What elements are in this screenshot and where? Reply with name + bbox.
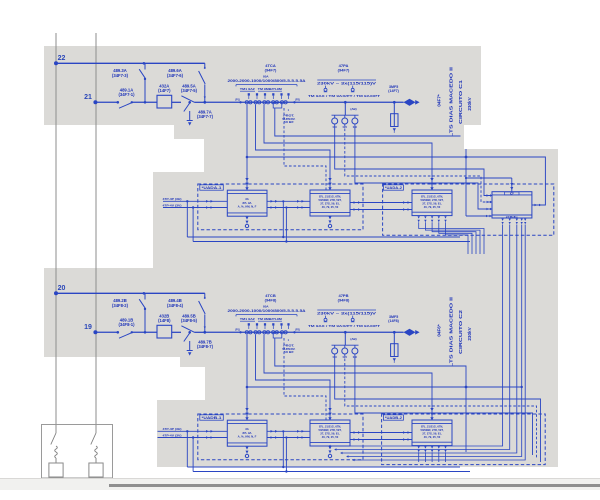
PT winding symbols (ratio) <box>325 316 327 319</box>
main line 21 right segment <box>205 101 404 103</box>
arrester ground arrow <box>393 128 396 131</box>
CT secondary terminal ticks <box>248 93 250 95</box>
svg-text:(P1): (P1) <box>235 329 240 332</box>
svg-text:LTS DIAS MACEDO II: LTS DIAS MACEDO II <box>449 297 454 367</box>
CT windings on main line <box>245 331 248 334</box>
svg-text:(P2): (P2) <box>295 329 300 332</box>
svg-text:CIRCUITO C2: CIRCUITO C2 <box>458 309 463 354</box>
feeder line F2 (gray, from upper bay) <box>95 33 97 461</box>
svg-text:TM 9MB/PI-9M: TM 9MB/PI-9M <box>258 87 283 91</box>
svg-text:(14F8): (14F8) <box>388 319 399 323</box>
relay U2 (distance protection) <box>310 420 350 446</box>
line exit arrow 04F7* <box>404 99 416 106</box>
relay U1 bottom indicator <box>246 447 249 450</box>
panel bus wire A <box>187 466 460 468</box>
disconnector 489.5B (34F8-5) <box>172 331 181 333</box>
earth switch 489.7B (34F8-7) <box>188 331 191 334</box>
PT bracket and windings <box>332 114 359 116</box>
svg-text:(34F7-1): (34F7-1) <box>118 92 135 97</box>
svg-text:A, %, HM, N, F: A, %, HM, N, F <box>238 434 257 438</box>
wire relay U1 to relay U2 (upper) <box>267 200 310 202</box>
svg-text:27, 27G, 59, 81,: 27, 27G, 59, 81, <box>320 201 340 205</box>
corner of bus 20 down to main line <box>204 293 206 299</box>
disconnector 489.1B (34F8-1) <box>117 331 120 334</box>
protection panel group *UADB-1 (dashed) <box>198 414 363 460</box>
relay U2 (distance protection) <box>310 190 350 216</box>
arrester ground arrow <box>393 358 396 361</box>
svg-text:19: 19 <box>84 324 92 331</box>
wire relay U2 to relay U3 (lower) <box>350 439 412 441</box>
PT tap junction <box>344 101 347 104</box>
relay U2 bottom indicator <box>329 216 332 219</box>
svg-text:(34F7-3): (34F7-3) <box>112 73 129 78</box>
svg-text:04F6*: 04F6* <box>437 324 442 336</box>
disconnector 489.1A (34F7-1) <box>117 101 120 104</box>
relay U1 (line differential) <box>227 190 267 216</box>
disconnector 489.4B (34F8-4) <box>204 296 206 298</box>
ground symbol under earth switch <box>188 352 191 355</box>
svg-text:LTS DIAS MACEDO II: LTS DIAS MACEDO II <box>449 67 454 137</box>
CT secondary wire to relay panel 1 <box>246 335 248 421</box>
circuit breaker 432B (14F8) <box>157 325 172 338</box>
background shading (drawing sheet highlight regions) <box>44 46 481 125</box>
svg-text:04F7*: 04F7* <box>437 94 442 106</box>
svg-text:47P-4V (3V): 47P-4V (3V) <box>163 204 182 208</box>
risers from panel wires down to bus wires <box>282 201 284 237</box>
relay U4 bottom output wires (to circuit C2 panel) <box>501 219 503 221</box>
feeder switch S2 (gray) <box>91 433 96 445</box>
protection panel group *UADB-2 (dashed) <box>382 414 546 465</box>
main line 21 left segment <box>95 101 118 103</box>
svg-text:(94F8): (94F8) <box>338 297 350 302</box>
relay U4 top entry arrows <box>510 183 513 186</box>
CT secondary wire 4 (long top run, corners down at x466) <box>275 338 466 387</box>
svg-text:(34F7-6): (34F7-6) <box>167 73 184 78</box>
CT secondary wire to relay panel 3 <box>264 105 432 191</box>
CT secondary terminal ticks <box>248 323 250 325</box>
svg-text:47P-4P (3H): 47P-4P (3H) <box>163 427 182 431</box>
wire bus from CT run down right side to relay U4 <box>247 157 545 205</box>
wire relay U2 to relay U3 (upper) <box>350 432 412 434</box>
relay U4 (bay unit, circuit C1 only) <box>492 192 532 218</box>
svg-text:87L, 21/21G, 67N,: 87L, 21/21G, 67N, <box>421 425 443 429</box>
svg-text:230kV: 230kV <box>467 326 472 340</box>
relay U2 bottom indicator <box>329 446 332 449</box>
relay U2 top entry arrows <box>328 178 331 181</box>
circuit breaker 432A (14F7) <box>157 95 172 108</box>
input riser wires <box>186 430 188 432</box>
svg-text:50/62BF, 27R, 59T,: 50/62BF, 27R, 59T, <box>318 198 341 202</box>
svg-text:(94F7): (94F7) <box>338 67 350 72</box>
svg-text:46, 79, 25, 50: 46, 79, 25, 50 <box>424 205 441 209</box>
svg-text:87L, 21/21G, 67N,: 87L, 21/21G, 67N, <box>319 425 341 429</box>
earth switch 489.7A (34F7-7) <box>188 101 191 104</box>
wire drop at x145 to disconnector 489.2B <box>144 293 146 299</box>
feeder terminal box T1 <box>49 463 63 477</box>
relay U1 top entry arrows <box>245 408 248 411</box>
svg-text:TM 9AX / TM 9AX/PT / TM 9AX/PT: TM 9AX / TM 9AX/PT / TM 9AX/PT <box>308 94 380 98</box>
CT secondary wire to relay panel 3 <box>264 335 432 421</box>
relay U1 (line differential) <box>227 420 267 446</box>
svg-text:47P-4P (3H): 47P-4P (3H) <box>163 197 182 201</box>
svg-text:(34F8-7): (34F8-7) <box>197 344 214 349</box>
wire relay U2 to relay U3 (lower) <box>350 209 412 211</box>
svg-text:*UADB-1: *UADB-1 <box>202 416 222 420</box>
wire relay U1 to relay U2 (lower) <box>267 207 310 209</box>
PT bracket and windings <box>332 344 359 346</box>
svg-text:TM1 9AZ: TM1 9AZ <box>240 317 255 321</box>
svg-text:(34F7-5): (34F7-5) <box>181 88 198 93</box>
svg-text:TM1 9AZ: TM1 9AZ <box>240 87 255 91</box>
main line 19 right segment <box>205 331 404 333</box>
CT windings on main line <box>245 101 248 104</box>
svg-text:(14F7): (14F7) <box>388 89 399 93</box>
svg-text:87L, 21/21G, 67N,: 87L, 21/21G, 67N, <box>421 195 443 199</box>
svg-text:*UADB-2: *UADB-2 <box>385 416 402 420</box>
feeder terminal box T2 <box>89 463 103 477</box>
svg-text:(AB): (AB) <box>350 107 356 111</box>
svg-text:47P-4V (3V): 47P-4V (3V) <box>163 434 182 438</box>
PT secondary wires to relay U4 inputs <box>335 124 492 196</box>
line exit arrow 04F6* <box>404 329 416 336</box>
svg-text:(34F8-4): (34F8-4) <box>167 303 184 308</box>
ground symbol under earth switch <box>188 122 191 125</box>
svg-text:46, 79, 25, 50: 46, 79, 25, 50 <box>322 205 339 209</box>
svg-text:230kV: 230kV <box>467 96 472 110</box>
CT secondary wire to relay panel 2 <box>256 105 331 191</box>
svg-text:27, 27G, 59, 81,: 27, 27G, 59, 81, <box>422 201 442 205</box>
svg-text:*UADA-2: *UADA-2 <box>385 186 402 190</box>
svg-text:20: 20 <box>58 285 66 292</box>
svg-text:(34F7-7): (34F7-7) <box>197 114 214 119</box>
svg-text:(34F8-2): (34F8-2) <box>112 303 129 308</box>
horizontal scrollbar track <box>0 478 600 490</box>
svg-text:46, 79, 25, 50: 46, 79, 25, 50 <box>424 435 441 439</box>
protection panel group *UADA-1 (dashed) <box>198 184 363 230</box>
svg-text:50/62BF, 27R, 59T,: 50/62BF, 27R, 59T, <box>420 198 443 202</box>
svg-text:(14F8): (14F8) <box>158 318 171 323</box>
svg-text:ICP: ICP <box>510 193 514 195</box>
wire relay U1 to relay U2 (upper) <box>267 430 310 432</box>
wire relay U1 to relay U2 (lower) <box>267 437 310 439</box>
relay U3 top entry arrows <box>430 178 433 181</box>
PT winding symbols (ratio) <box>325 86 327 89</box>
svg-text:50 BF: 50 BF <box>284 350 294 354</box>
panel bus wire B <box>193 241 470 243</box>
disconnector 489.6A (34F7-6) <box>204 66 206 68</box>
svg-text:50/62BF, 27R, 59T,: 50/62BF, 27R, 59T, <box>318 428 341 432</box>
svg-text:21: 21 <box>84 94 92 101</box>
svg-text:*UADA-1: *UADA-1 <box>202 186 222 190</box>
PT tap junction <box>344 331 347 334</box>
relay U1 top entry arrows <box>245 178 248 181</box>
CT metering wire (dashed) <box>284 338 326 420</box>
relay U3 top entry arrows <box>430 408 433 411</box>
svg-text:TM 9MB/PI-9M: TM 9MB/PI-9M <box>258 317 283 321</box>
svg-text:27, 27G, 59, 81,: 27, 27G, 59, 81, <box>320 431 340 435</box>
svg-text:CIRCUITO C1: CIRCUITO C1 <box>458 79 463 124</box>
svg-text:22: 22 <box>58 55 66 62</box>
svg-text:(P2): (P2) <box>295 99 300 102</box>
CT secondary wire 4 (long top run, corners down at x466) <box>275 108 461 136</box>
svg-text:50/62BF, 27R, 59T,: 50/62BF, 27R, 59T, <box>420 428 443 432</box>
disconnector 489.3A (34F7-3) <box>139 69 145 79</box>
relay U3 bottom output arrows <box>418 216 420 218</box>
metering CT box <box>273 333 282 338</box>
metering CT box <box>273 103 282 108</box>
PT secondary wires to relay U4 inputs <box>335 354 541 462</box>
wire relay U2 to relay U3 (upper) <box>350 202 412 204</box>
panel bus wire B <box>193 471 470 473</box>
disconnector 489.5A (34F7-5) <box>172 101 181 103</box>
svg-text:46, 79, 25, 50: 46, 79, 25, 50 <box>322 435 339 439</box>
svg-text:(94F7): (94F7) <box>265 67 277 72</box>
CT ratio bracket <box>236 84 297 86</box>
risers from panel wires down to bus wires <box>282 431 284 467</box>
svg-text:2000-2000-1000/1000/800/5-5-5-: 2000-2000-1000/1000/800/5-5-5-5-5A <box>228 309 307 313</box>
relay U4 top feed branch <box>466 177 512 179</box>
CT secondary wire to relay panel 1 <box>246 105 248 191</box>
svg-text:230kV ~ 3x(115/115)V: 230kV ~ 3x(115/115)V <box>317 311 377 315</box>
relay U2 top entry arrows <box>328 408 331 411</box>
CT ratio bracket <box>236 314 297 316</box>
relay U1 bottom indicator <box>246 217 249 220</box>
feeder switch S1 (gray) <box>51 433 56 445</box>
svg-text:27, 27G, 59, 81,: 27, 27G, 59, 81, <box>422 431 442 435</box>
horizontal scrollbar thumb <box>109 484 600 487</box>
feeder termination cubicle (gray outline box) <box>42 425 113 479</box>
bus 22 (upper bus) <box>56 62 205 64</box>
svg-text:87L, 21/21G, 67N,: 87L, 21/21G, 67N, <box>319 195 341 199</box>
relay U3 (backup protection) <box>412 190 452 216</box>
main line 19 left segment <box>95 331 118 333</box>
CT secondary wire to relay panel 2 <box>256 335 331 421</box>
svg-text:A, %, HM, N, F: A, %, HM, N, F <box>238 204 257 208</box>
svg-text:TM 9AX / TM 9AX/PT / TM 9AX/PT: TM 9AX / TM 9AX/PT / TM 9AX/PT <box>308 324 380 328</box>
corner of bus 22 down to main line <box>204 63 206 69</box>
svg-text:2000-2000-1000/1000/800/5-5-5-: 2000-2000-1000/1000/800/5-5-5-5-5A <box>228 79 307 83</box>
svg-text:2TB/4C: 2TB/4C <box>506 216 519 219</box>
feeder line F1 (gray, from upper bay) <box>55 33 57 461</box>
CT metering wire (dashed) <box>284 108 326 190</box>
bus 20 (upper bus) <box>56 292 205 294</box>
protection panel group *UADA-2 (dashed) <box>383 184 554 235</box>
disconnector 489.2B (34F8-2) <box>139 299 145 309</box>
svg-text:(AB): (AB) <box>350 337 356 341</box>
relay U3 bottom output arrows <box>418 446 420 448</box>
input riser wires <box>186 200 188 202</box>
svg-text:(P1): (P1) <box>235 99 240 102</box>
wire bus from CT run down right side to relay U4 <box>247 386 522 388</box>
svg-text:(34F8-5): (34F8-5) <box>181 318 198 323</box>
svg-text:(94F8): (94F8) <box>265 297 277 302</box>
wire drop at x145 to disconnector 489.3A <box>144 63 146 69</box>
svg-text:50 BF: 50 BF <box>284 120 294 124</box>
relay U3 (backup protection) <box>412 420 452 446</box>
svg-text:230kV ~ 3x(115/115)V: 230kV ~ 3x(115/115)V <box>317 81 377 85</box>
svg-text:(14F7): (14F7) <box>158 88 171 93</box>
svg-text:(34F8-1): (34F8-1) <box>118 322 135 327</box>
panel bus wire A <box>187 236 460 238</box>
